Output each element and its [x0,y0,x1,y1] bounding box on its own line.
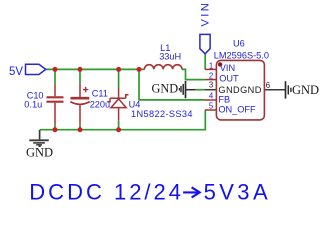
svg-text:VIN: VIN [199,1,211,27]
svg-text:33uH: 33uH [159,51,181,61]
svg-text:U6: U6 [233,38,245,48]
svg-text:DCDC 12/24: DCDC 12/24 [29,180,184,205]
svg-text:0.1u: 0.1u [24,100,42,110]
svg-text:220u: 220u [90,100,110,110]
svg-text:2: 2 [209,72,213,81]
svg-text:ON_OFF: ON_OFF [218,105,256,115]
svg-text:GND: GND [26,145,53,159]
svg-text:5: 5 [209,102,214,111]
svg-text:5V: 5V [9,64,23,79]
svg-text:5V3A: 5V3A [204,180,271,205]
svg-text:3: 3 [209,81,213,90]
svg-text:FB: FB [218,94,230,104]
svg-text:GND: GND [152,81,179,95]
svg-text:GNDGND: GNDGND [218,85,261,95]
svg-text:GND: GND [292,83,319,97]
svg-text:6: 6 [266,81,270,90]
svg-text:4: 4 [209,92,214,101]
svg-text:C11: C11 [92,88,108,98]
svg-text:LM2596S-5.0: LM2596S-5.0 [214,50,269,60]
svg-text:VIN: VIN [220,63,235,73]
svg-text:1N5822-SS34: 1N5822-SS34 [131,109,193,119]
svg-text:1: 1 [209,61,213,70]
svg-text:U4: U4 [129,99,141,109]
svg-text:OUT: OUT [219,73,239,83]
